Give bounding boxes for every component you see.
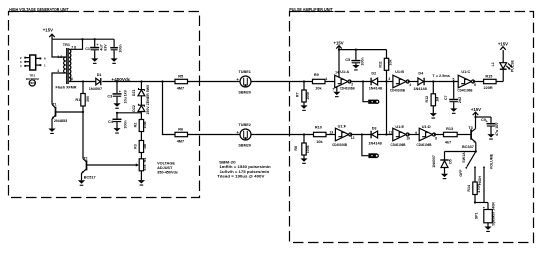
ground C9 — [487, 134, 494, 140]
switch SW1A — [459, 152, 493, 203]
svg-text:+15V: +15V — [471, 107, 481, 112]
svg-text:C9: C9 — [481, 118, 486, 122]
wire D2 to U1B — [378, 81, 393, 83]
svg-text:U1:C: U1:C — [461, 70, 470, 74]
wire secondary pin 3 to D1 — [69, 81, 96, 83]
op-amp U1F (CD40106B inverter) — [329, 125, 354, 147]
op-amp U1B (CD40106B inverter) — [388, 70, 411, 93]
HV box title — [9, 7, 70, 12]
RIGHTBOX — [217, 70, 313, 179]
transistor T3 — [462, 126, 476, 152]
svg-text:63V: 63V — [103, 44, 107, 51]
svg-text:R7: R7 — [296, 92, 300, 97]
capacitor C1 — [85, 39, 107, 58]
wire T3 emitter to D5 — [445, 151, 476, 153]
resistor R2 — [134, 113, 147, 141]
wire rail to primary top — [52, 39, 66, 57]
capacitor C4 — [108, 113, 127, 129]
svg-text:VOLUME: VOLUME — [489, 153, 493, 169]
svg-text:T3: T3 — [468, 126, 472, 130]
tag OSC (bottom) — [362, 135, 378, 159]
svg-text:100k: 100k — [306, 145, 310, 153]
wire secondary top pin 7 8 to rail — [69, 39, 82, 49]
svg-text:R3: R3 — [134, 144, 138, 149]
op-amp U1E (CD40106B inverter) — [389, 125, 411, 147]
pulse box border — [290, 12, 534, 243]
svg-text:1N4007: 1N4007 — [432, 155, 436, 168]
svg-text:220R: 220R — [484, 86, 493, 90]
svg-text:R15: R15 — [485, 75, 492, 79]
diode D2 — [369, 72, 382, 91]
svg-text:U1:D: U1:D — [422, 125, 431, 129]
svg-text:Flash XFMR: Flash XFMR — [56, 86, 77, 90]
svg-text:Speaker 140R: Speaker 140R — [491, 202, 495, 226]
svg-text:VOLTAGE: VOLTAGE — [157, 161, 175, 165]
svg-text:10k: 10k — [389, 60, 393, 66]
diode D4 — [413, 72, 426, 91]
resistor R1 — [75, 82, 90, 113]
svg-text:1N4148: 1N4148 — [368, 142, 381, 146]
diode D5 — [432, 152, 453, 174]
svg-text:VIEW: VIEW — [29, 81, 37, 85]
svg-text:1: 1 — [326, 77, 328, 81]
wire D4 to U1C — [424, 81, 458, 83]
ground C7 — [450, 108, 457, 114]
svg-text:DZ2: DZ2 — [132, 105, 136, 112]
svg-text:R4: R4 — [143, 158, 147, 163]
svg-text:1N4007: 1N4007 — [89, 87, 102, 91]
svg-text:2: 2 — [351, 83, 353, 87]
zener DZ1 — [132, 82, 145, 105]
resistor R12 — [425, 82, 440, 114]
svg-text:4M7: 4M7 — [177, 140, 184, 144]
svg-text:4k7: 4k7 — [445, 140, 451, 144]
resistor R11 — [379, 50, 393, 82]
svg-text:1M: 1M — [436, 97, 440, 102]
svg-text:L1: L1 — [491, 62, 495, 66]
svg-text:100k: 100k — [306, 92, 310, 100]
svg-text:R10: R10 — [315, 125, 322, 129]
wire U1A out to D2 — [350, 81, 372, 83]
svg-text:BC337: BC337 — [462, 145, 474, 149]
svg-text:D1: D1 — [97, 73, 102, 77]
wire R13 to T3 base — [457, 134, 471, 136]
wire R1 node to T2 collector — [82, 112, 84, 159]
resistor R8 — [294, 135, 310, 159]
svg-text:U1:B: U1:B — [395, 70, 404, 74]
note SBM-20 data — [217, 159, 271, 178]
svg-text:150V ZENER 5W5: 150V ZENER 5W5 — [146, 85, 150, 115]
svg-text:1M: 1M — [143, 144, 147, 149]
wire zener bottom row to C4 — [117, 112, 141, 114]
wire U1F out to D3 — [350, 134, 371, 136]
wire R11 node down to bottom channel — [386, 82, 388, 135]
svg-text:1N4148: 1N4148 — [369, 87, 382, 91]
svg-text:R1: R1 — [75, 98, 80, 102]
svg-text:R9: R9 — [314, 73, 319, 77]
ground T2 emitter — [78, 180, 85, 186]
ground R8 — [300, 158, 307, 164]
capacitor C2 — [110, 39, 122, 58]
svg-text:350-450Vdc: 350-450Vdc — [157, 170, 178, 174]
svg-text:CD40106B: CD40106B — [457, 89, 472, 93]
svg-text:+15V: +15V — [498, 42, 508, 47]
svg-text:TUBE1: TUBE1 — [238, 70, 250, 74]
transformer TR1 — [56, 43, 77, 90]
LED L1 PULSE — [491, 50, 515, 81]
svg-text:8: 8 — [435, 136, 437, 140]
svg-text:SP1: SP1 — [474, 213, 478, 220]
wire R6 to TUBE2 — [188, 134, 241, 136]
svg-text:470R: 470R — [477, 184, 481, 193]
resistor R10 — [314, 125, 327, 143]
resistor R15 — [484, 75, 497, 91]
svg-text:U1:E: U1:E — [395, 125, 404, 129]
wire R9 to U1A — [325, 81, 335, 83]
transistor T1 — [52, 103, 68, 129]
svg-text:SW1A: SW1A — [462, 152, 466, 163]
svg-text:1N4148: 1N4148 — [413, 87, 426, 91]
svg-text:R2: R2 — [134, 123, 138, 128]
supply +15V (U1) — [334, 40, 344, 49]
svg-text:CD40106B: CD40106B — [332, 143, 347, 147]
wire U1E out to U1D — [408, 134, 420, 136]
svg-text:100n: 100n — [123, 120, 127, 128]
wire U1C out to R15 — [473, 81, 484, 83]
supply +15V (left) — [43, 27, 55, 39]
svg-text:+15V: +15V — [334, 40, 344, 45]
svg-text:14: 14 — [335, 71, 339, 75]
junction nodes left box — [81, 38, 163, 114]
svg-text:R6: R6 — [178, 128, 183, 132]
GM tube TUBE2 SBM20 — [236, 123, 251, 147]
svg-text:D5: D5 — [449, 159, 453, 164]
svg-text:1 2: 1 2 — [57, 55, 62, 59]
ground C1 — [91, 58, 98, 64]
svg-text:100n: 100n — [360, 57, 364, 65]
diode D3 — [368, 127, 381, 146]
supply +15V (T3) — [471, 107, 481, 117]
svg-text:CD40106B: CD40106B — [391, 143, 406, 147]
wire U1A power stub — [338, 50, 340, 78]
svg-text:U1:A: U1:A — [340, 70, 349, 74]
svg-text:BC517: BC517 — [84, 175, 96, 179]
zener DZ2 — [132, 85, 150, 115]
capacitor C9 — [476, 117, 500, 136]
svg-text:U1:F: U1:F — [338, 125, 347, 129]
svg-text:3: 3 — [388, 77, 390, 81]
ground SP1 — [484, 227, 491, 233]
svg-text:R11: R11 — [379, 61, 383, 67]
svg-text:DZ1: DZ1 — [132, 89, 136, 96]
wire T2 base to R4 wiper — [87, 164, 137, 166]
svg-text:D3: D3 — [372, 127, 377, 131]
svg-text:+400Vdc: +400Vdc — [111, 77, 131, 82]
svg-text:R5: R5 — [178, 75, 183, 79]
wire D3 to U1E — [378, 134, 393, 136]
svg-text:R14: R14 — [467, 185, 471, 192]
HV box border — [9, 12, 200, 198]
label voltage adjust — [157, 161, 178, 174]
speaker SP1 — [474, 202, 495, 227]
svg-text:+: + — [236, 77, 239, 82]
op-amp U1A (CD40106B inverter) — [326, 70, 356, 92]
svg-text:13: 13 — [329, 131, 333, 135]
svg-text:+: + — [236, 130, 239, 135]
supply +15V (LED) — [498, 42, 508, 50]
svg-text:SBM20: SBM20 — [238, 90, 251, 94]
wire D1 to R5 , node +400Vdc — [102, 81, 175, 83]
svg-text:4M7: 4M7 — [177, 87, 184, 91]
svg-text:PULSE: PULSE — [511, 60, 515, 73]
svg-text:C3: C3 — [107, 95, 112, 99]
ground T1 emitter — [48, 129, 55, 135]
potentiometer R4 — [136, 158, 147, 180]
svg-text:ADJUST: ADJUST — [157, 166, 173, 170]
svg-text:C5: C5 — [345, 58, 350, 62]
transistor T2 — [81, 157, 95, 181]
svg-text:D2: D2 — [371, 72, 376, 76]
svg-text:11: 11 — [389, 130, 393, 134]
wire R10 to U1F — [326, 134, 335, 136]
wire TUBE2 to R8/R10 — [251, 134, 314, 136]
wire R5 to TUBE1 — [188, 81, 241, 83]
resistor R6 — [175, 128, 188, 144]
ground R12 — [430, 113, 437, 119]
svg-text:CD40106B: CD40106B — [390, 89, 405, 93]
wire branch to R6 — [163, 82, 176, 135]
ground C3 — [113, 103, 120, 109]
wire U1D out to R13 — [434, 134, 444, 136]
wire U1B out to D4 — [408, 81, 418, 83]
resistor R9 — [313, 73, 326, 91]
svg-text:CD40106B: CD40106B — [417, 143, 432, 147]
svg-text:4: 4 — [409, 83, 411, 87]
svg-text:10M: 10M — [143, 122, 147, 129]
svg-text:7: 7 — [332, 87, 334, 91]
capacitor C5 — [345, 50, 364, 66]
svg-text:2n2: 2n2 — [458, 97, 462, 103]
svg-text:CD40106B: CD40106B — [340, 87, 355, 91]
TR1 bottom view inset — [20, 55, 46, 86]
ground R7 — [300, 105, 307, 111]
svg-text:100n: 100n — [119, 44, 123, 52]
wire R15 to LED — [496, 81, 503, 83]
svg-text:R12: R12 — [425, 96, 429, 103]
svg-text:9: 9 — [415, 131, 417, 135]
wire +15V rail — [52, 38, 114, 40]
svg-text:2N4853: 2N4853 — [54, 119, 67, 123]
svg-text:47k: 47k — [143, 165, 147, 171]
resistor R5 — [175, 75, 188, 91]
svg-text:10u 1kV: 10u 1kV — [123, 89, 127, 103]
svg-text:6: 6 — [474, 83, 476, 87]
ground U1A pin7 — [333, 92, 340, 98]
wire T1 base — [56, 111, 84, 113]
ground C5 — [352, 65, 359, 71]
ground R4 — [138, 180, 145, 186]
svg-text:390: 390 — [86, 96, 90, 102]
svg-text:OFF: OFF — [459, 169, 463, 177]
svg-text:R8: R8 — [294, 146, 298, 151]
svg-text:SBM20: SBM20 — [238, 143, 251, 147]
svg-text:3: 3 — [71, 77, 73, 81]
svg-text:12: 12 — [351, 136, 355, 140]
resistor R7 — [296, 82, 310, 106]
junction nodes right box — [303, 49, 477, 204]
svg-text:T = 2.5ms: T = 2.5ms — [432, 74, 449, 78]
wire +15V rail to R11 — [339, 49, 387, 51]
wire TUBE1 to R7/R9 — [251, 81, 313, 83]
svg-text:R13: R13 — [446, 127, 453, 131]
svg-text:+15V: +15V — [43, 27, 53, 32]
svg-text:TR1: TR1 — [63, 43, 70, 47]
diode D1 — [89, 73, 102, 91]
op-amp U1D (CD40106B inverter) — [415, 125, 437, 147]
svg-text:47u 16V: 47u 16V — [495, 122, 499, 136]
ground C4 — [113, 128, 120, 134]
capacitor C7 — [444, 82, 462, 109]
svg-text:HIGH: HIGH — [478, 176, 482, 185]
resistor R13 — [444, 127, 458, 144]
svg-text:10k: 10k — [315, 87, 322, 91]
op-amp U1C (CD40106B inverter) — [453, 70, 477, 93]
wire T3 collector to +15V — [475, 117, 477, 129]
tag OSC (top) — [363, 82, 379, 104]
svg-text:10k: 10k — [316, 140, 323, 144]
svg-text:Tdead = 190us @ 400V: Tdead = 190us @ 400V — [217, 174, 265, 179]
svg-text:C7: C7 — [444, 95, 448, 100]
svg-text:C1: C1 — [85, 47, 90, 51]
svg-text:10: 10 — [406, 136, 410, 140]
resistor R3 — [134, 141, 147, 159]
svg-text:TUBE2: TUBE2 — [238, 123, 250, 127]
ground D5 — [441, 174, 448, 180]
resistor R14 — [467, 182, 488, 203]
wire primary pin 4 to T1 collector — [52, 73, 66, 104]
GM tube TUBE1 SBM20 — [236, 70, 251, 94]
pulse box title — [289, 7, 333, 12]
ground C2 — [111, 58, 118, 64]
capacitor C3 — [107, 82, 127, 104]
